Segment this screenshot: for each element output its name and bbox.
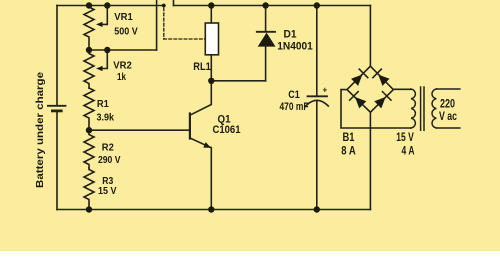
transformer core (421, 87, 424, 130)
wire RL1 bottom lead (210, 55, 212, 81)
svg-text:8 A: 8 A (341, 146, 356, 158)
wire VR junction to switch (89, 49, 157, 51)
node VR1 wiper top (104, 2, 110, 8)
resistor R3 (84, 168, 94, 210)
bridge diode (bottom-right arm) (374, 92, 391, 109)
node R1/R2 base junction (86, 127, 92, 133)
transformer T1 primary winding (220V) (432, 89, 436, 128)
svg-text:3.9k: 3.9k (96, 112, 114, 124)
wire top rail to bridge top corner (369, 6, 371, 67)
bridge rectifier B1 diamond (347, 66, 393, 112)
node RL1/D1/collector (208, 78, 214, 84)
svg-text:1k: 1k (117, 71, 126, 83)
wire base of Q1 to R1/R2 junction (89, 129, 189, 131)
capacitor C1 (electrolytic) (306, 96, 329, 106)
node VR1 top (86, 2, 92, 8)
svg-text:R2: R2 (102, 141, 114, 153)
relay coil RL1 (205, 23, 218, 55)
node VR1/VR2 junction (86, 47, 92, 53)
svg-text:290 V: 290 V (98, 154, 121, 166)
transistor Q1 base bar (189, 114, 191, 139)
wire C1 top lead (316, 6, 318, 97)
wire top rail right segment (174, 5, 371, 7)
node VR2 wiper junction (104, 47, 110, 53)
svg-text:RL1: RL1 (193, 61, 211, 73)
wire bridge right AC corner to secondary top (393, 88, 411, 90)
node C1 bottom (314, 206, 320, 212)
svg-text:4 A: 4 A (402, 146, 415, 158)
node D1 top (262, 2, 268, 8)
node RL1 top (208, 2, 214, 8)
svg-text:Battery under charge: Battery under charge (34, 72, 46, 188)
wire bridge bottom corner to bottom rail (369, 112, 371, 209)
wiper of VR1 (101, 6, 107, 25)
wire primary bottom lead (436, 127, 459, 129)
battery BT (under charge) plates (48, 106, 66, 111)
wire primary top lead (436, 88, 459, 90)
svg-text:470 mF: 470 mF (280, 101, 309, 113)
node switch pivot (162, 4, 166, 8)
transformer T1 secondary winding (15V) (411, 89, 415, 128)
svg-text:500 V: 500 V (114, 25, 138, 37)
svg-text:VR1: VR1 (114, 11, 133, 23)
bridge diode (bottom-left arm) (350, 92, 367, 109)
node R3 bottom (86, 206, 92, 212)
wire D1 anode lead (265, 46, 267, 80)
svg-text:V ac: V ac (439, 111, 457, 123)
potentiometer VR2 (84, 50, 94, 88)
bridge diode (right-top arm) (373, 69, 390, 86)
wire battery top lead (56, 6, 58, 106)
svg-text:+: + (322, 85, 327, 94)
svg-text:C1: C1 (288, 89, 300, 101)
transistor Q1 emitter with arrow (190, 138, 211, 148)
svg-text:220: 220 (440, 98, 455, 110)
svg-text:15 V: 15 V (396, 132, 414, 144)
svg-text:R1: R1 (97, 98, 109, 110)
diode D1 (257, 32, 276, 47)
svg-text:VR2: VR2 (113, 59, 132, 71)
svg-text:D1: D1 (284, 28, 297, 40)
svg-text:C1061: C1061 (213, 124, 241, 136)
wire node RL1/D1 horizontal (211, 80, 265, 82)
bridge diode (left-top arm) (350, 69, 367, 86)
wire bridge left AC corner to secondary bottom (341, 90, 411, 128)
mechanical linkage (dashed) relay to switch (163, 8, 165, 39)
relay switch right contact tick (173, 1, 175, 6)
potentiometer VR1 (84, 6, 94, 51)
wiper of VR2 (101, 50, 107, 69)
svg-text:B1: B1 (343, 132, 355, 144)
transistor Q1 collector lead (190, 81, 211, 115)
wire bottom rail (57, 209, 370, 211)
node emitter bottom (208, 206, 214, 212)
resistor R2 (84, 130, 94, 168)
resistor R1 (84, 88, 94, 130)
wire top rail left segment (57, 5, 164, 7)
wire Q1 emitter to bottom rail (210, 148, 212, 210)
relay switch S1 arm (156, 0, 158, 50)
node C1 top (314, 2, 320, 8)
wire battery bottom lead (56, 111, 58, 210)
wire D1 cathode lead (265, 6, 267, 32)
wire RL1 top lead (210, 6, 212, 24)
wire C1 bottom lead (316, 100, 318, 209)
svg-text:1N4001: 1N4001 (277, 41, 313, 53)
node dots (86, 2, 320, 212)
svg-text:15 V: 15 V (98, 185, 117, 197)
